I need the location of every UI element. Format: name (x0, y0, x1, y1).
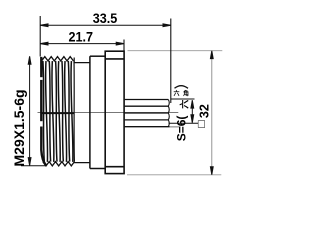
svg-text:21.7: 21.7 (69, 29, 93, 45)
svg-text:六: 六 (179, 100, 190, 109)
svg-text:□: □ (194, 120, 208, 127)
svg-text:33.5: 33.5 (93, 10, 118, 26)
svg-text:32: 32 (198, 104, 212, 118)
svg-text:M29X1.5-6g: M29X1.5-6g (11, 89, 27, 166)
svg-text:S=6(: S=6( (174, 116, 188, 142)
